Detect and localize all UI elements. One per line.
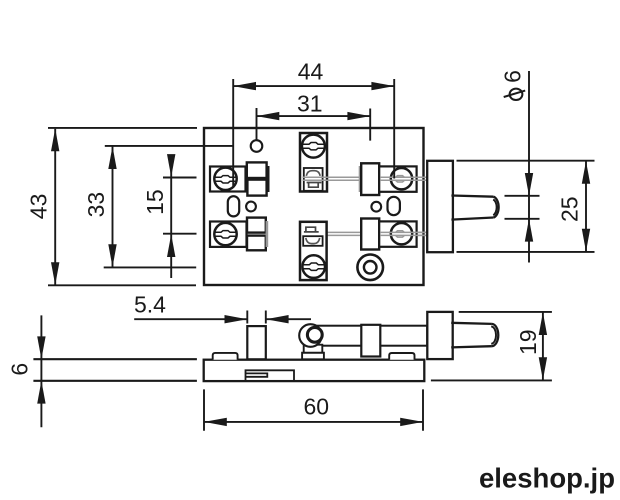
bottom view base plate strip [33, 359, 197, 381]
button shaft tip cap [494, 197, 499, 218]
dim 43 line [54, 129, 56, 285]
terminal left-top clamp block upper [247, 162, 267, 178]
arrow 44 left [233, 82, 256, 90]
rivet washer [357, 254, 383, 280]
terminal left-bottom clamp block lower [247, 236, 266, 251]
terminal left-top clamp block lower [247, 180, 266, 196]
terminal right-bottom block [361, 219, 379, 250]
arrow 31 left [257, 112, 280, 120]
arrow 43 bottom [51, 262, 59, 285]
dim 19 line [542, 312, 544, 380]
terminal right-top screw [391, 168, 412, 189]
dim 31 line [257, 115, 371, 117]
arrow 19 top [539, 312, 547, 335]
button shaft top view [451, 196, 493, 220]
svg-text:19: 19 [515, 329, 541, 355]
actuator bar row2 screw bulge [396, 231, 405, 237]
arrow 60 left [204, 418, 227, 426]
arrow 6 upper (pointing down) [37, 336, 45, 359]
dim 25 extension lines [457, 161, 595, 252]
terminal left-bottom screw [214, 223, 236, 245]
button shaft tip inner arc [493, 200, 496, 216]
terminal left-bottom plate [210, 222, 247, 247]
actuator bar row1 [303, 177, 428, 180]
arrow 44 right [371, 82, 394, 90]
dim 44 extension lines [233, 79, 394, 186]
terminal right-top plate [379, 166, 416, 191]
dim 44 line [233, 85, 394, 87]
terminal left-top screw [214, 168, 236, 190]
bottom view inner latch detail [246, 370, 295, 381]
obround hole left [228, 196, 239, 216]
bottom view foot right [389, 353, 414, 360]
terminal center-bottom body [300, 222, 327, 280]
bottom view shaft tip inner arc [491, 327, 496, 344]
svg-text:25: 25 [557, 196, 583, 222]
bottom view pedestal base [302, 353, 324, 360]
bottom view spring roll ring [307, 327, 322, 342]
small hole right [371, 202, 381, 212]
terminal left-bottom screw slot [215, 231, 237, 238]
terminal right-bottom screw [391, 223, 412, 244]
terminal center-bottom clamp frame [303, 236, 322, 246]
terminal center-top clamp frame [304, 168, 323, 191]
terminal center-top wire hump [306, 171, 320, 176]
bottom view body block [204, 360, 425, 381]
mounting hole top-left [251, 140, 263, 152]
arrow 31 right [347, 112, 370, 120]
terminal center-bottom top tab [304, 227, 319, 232]
arrow 43 top [51, 129, 59, 152]
arrow 5.4 right (pointing left) [266, 315, 289, 323]
terminal left-top screw slot [215, 176, 237, 183]
arrow 33 top [108, 146, 116, 169]
label phi6 diameter symbol [504, 89, 526, 100]
bottom view button shaft [451, 323, 491, 348]
svg-text:15: 15 [142, 189, 168, 215]
arrow 6 lower (pointing up) [37, 381, 45, 404]
arrow phi6 upper (pointing down) [525, 173, 533, 196]
bottom view shaft tip cap [492, 324, 499, 346]
dim 15 line [170, 156, 172, 278]
actuator bar row2 [303, 232, 428, 235]
small hole left [246, 202, 256, 212]
bottom view mounting plate [427, 312, 452, 359]
terminal center-bottom screw [302, 255, 325, 278]
terminal right-top actuator through screw [380, 176, 427, 182]
side mounting plate top view [427, 161, 453, 252]
dim 43 extension lines [48, 128, 197, 285]
svg-text:6: 6 [500, 70, 526, 83]
svg-text:44: 44 [298, 59, 324, 85]
terminal right-bottom actuator through screw [380, 231, 427, 237]
dim 33 extension lines [104, 146, 233, 268]
arrow 60 right [400, 418, 423, 426]
svg-text:eleshop.jp: eleshop.jp [479, 463, 615, 494]
bottom view actuator bar [316, 326, 427, 346]
bottom view post 2 [361, 325, 380, 357]
terminal right-top block shadow [359, 166, 361, 192]
top view body outline [204, 128, 424, 285]
dim 60 line [204, 421, 423, 423]
dim 19 extension lines [431, 312, 552, 381]
terminal left-top plate [210, 167, 246, 192]
arrow 33 bottom [108, 244, 116, 267]
dim 5.4 lines and ticks [134, 311, 311, 324]
terminal left-top block shadow edge [266, 166, 269, 192]
terminal center-top body [300, 133, 327, 192]
svg-text:60: 60 [304, 393, 330, 419]
dim 31 extension lines [257, 108, 371, 141]
svg-text:6: 6 [7, 363, 33, 376]
arrow 15 bottom (outside pointing up) [167, 234, 175, 257]
actuator bar row1 screw bulge [396, 176, 405, 182]
dim phi6 extension lines [505, 196, 540, 219]
arrow 15 top (outside pointing down) [167, 154, 175, 177]
terminal center-bottom wire arc [306, 238, 320, 244]
terminal left-bottom clamp block upper [247, 218, 266, 233]
bottom view foot left [213, 353, 238, 360]
arrow 25 bottom [582, 229, 590, 252]
terminal right-top clamp block [361, 163, 379, 195]
dim 33 line [112, 146, 114, 267]
terminal left-bottom block shadow edge [266, 221, 269, 247]
arrow 5.4 left (pointing right) [225, 315, 248, 323]
dim 60 extension lines [204, 389, 423, 430]
svg-text:5.4: 5.4 [134, 292, 166, 318]
svg-text:33: 33 [83, 192, 109, 218]
terminal center-top screw slot [303, 143, 325, 150]
arrow phi6 lower (pointing up) [525, 219, 533, 242]
dim 6 line [40, 315, 42, 427]
bottom view pedestal [304, 345, 323, 353]
bottom view post 1 [247, 326, 265, 359]
arrow 25 top [582, 161, 590, 184]
svg-text:31: 31 [297, 91, 323, 117]
terminal center-bottom screw slot [303, 263, 325, 270]
bottom view spring roll outer [299, 324, 322, 347]
dim 25 line [585, 161, 587, 252]
terminal right-bottom plate [379, 221, 416, 246]
terminal center-top screw [302, 135, 325, 158]
obround hole right [388, 197, 400, 215]
dim phi6 line [528, 71, 530, 263]
arrow 19 bottom [539, 357, 547, 380]
svg-text:43: 43 [26, 194, 52, 220]
dim 15 extension lines [163, 178, 197, 234]
terminal center-top lower tab [307, 183, 322, 188]
